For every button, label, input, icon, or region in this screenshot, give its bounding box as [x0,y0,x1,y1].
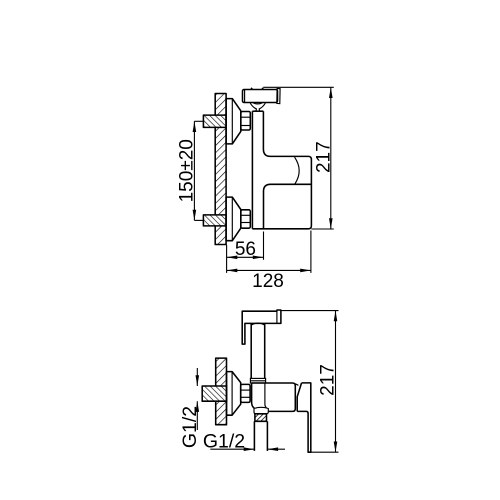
faucet body column and blocks [252,111,311,229]
dim 217 extension lines (bottom figure) [281,311,339,453]
wall section (hatched) [215,94,226,245]
sprayer handle bulge [251,323,265,325]
spout cylinder arc [295,157,300,184]
dim 56 extension line right [263,232,265,260]
dim 217 extension lines (top figure) [263,87,334,229]
dim 56 line with arrows [227,256,264,260]
union nut [241,384,250,402]
bottom union nut [241,210,251,228]
dim 150±20 line with arrows [193,121,197,220]
dim 217 line with arrows (top figure) [329,87,333,229]
outlet nipple (threaded, hatched) [255,414,267,422]
escutcheon flange [227,372,241,416]
sprayer head [242,310,281,344]
dim 128 line with arrows [227,269,311,273]
svg-text:150±20: 150±20 [176,139,197,202]
dim 217 line with arrows (bottom figure) [334,311,338,453]
svg-text:128: 128 [252,271,284,292]
extension line right for 128 [310,231,312,273]
shared extension line left (wall corner) [226,245,228,273]
hose ferrule [250,378,265,383]
svg-text:G1/2: G1/2 [203,431,245,453]
svg-text:217: 217 [317,364,338,396]
mixer lever handle [243,88,281,103]
handle stem funnel [250,103,265,111]
dim 150±20 extension lines [194,121,203,220]
bottom escutcheon flange [226,197,241,241]
supply pipe stub (hatched) [202,386,226,401]
svg-text:217: 217 [313,141,334,173]
top supply pipe stub (hatched) [203,115,226,127]
dim G1/2 horizontal arrows [210,447,285,451]
valve body [252,383,296,411]
holder bracket [295,383,311,452]
outlet cup [254,407,268,413]
outlet pipe [254,421,267,451]
dim G1/2 vertical leader with arrows [196,368,200,430]
wall section (hatched) [216,358,227,425]
sprayer handle tube [251,323,265,378]
top union nut [241,112,251,131]
svg-text:G1/2: G1/2 [179,406,201,448]
handle top ticks [250,87,265,89]
top escutcheon flange [226,99,241,144]
bottom supply pipe stub (hatched) [203,215,226,226]
svg-text:56: 56 [235,239,256,260]
